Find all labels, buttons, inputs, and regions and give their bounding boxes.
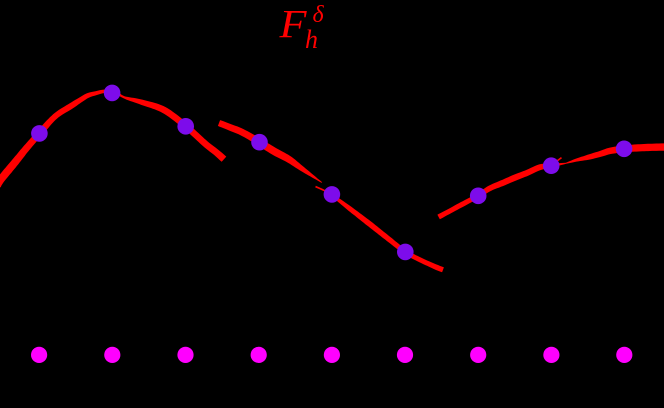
mesh point 6 (magenta) [397, 347, 413, 363]
curve piece 2a (red band, element 2: cap to wedge tip) [218, 120, 322, 183]
svg-text:δ: δ [313, 2, 325, 28]
node dot 4 (purple) [251, 134, 268, 151]
thin crossing stroke near node 8 [552, 157, 562, 165]
curve piece 3 (red band, element 3) [437, 143, 664, 219]
mesh point 9 (magenta) [616, 347, 632, 363]
curve piece 2c (red band, element 2: node 5 to end) [328, 191, 444, 272]
node dot 8 (purple) [543, 157, 560, 174]
mesh point 3 (magenta) [177, 347, 193, 363]
node dot 2 (purple) [104, 85, 121, 102]
node dot 1 (purple) [31, 125, 48, 142]
mesh point 1 (magenta) [31, 347, 47, 363]
node dot 6 (purple) [397, 244, 414, 261]
curve piece 2b (thin line into node 5) [315, 186, 328, 193]
node dot 7 (purple) [470, 188, 487, 205]
node dot 3 (purple) [177, 118, 194, 135]
svg-text:h: h [305, 25, 318, 54]
mesh point 8 (magenta) [543, 347, 559, 363]
node dot 9 (purple) [616, 141, 633, 158]
node dot 5 (purple) [324, 186, 341, 203]
curve piece 1 (red band, element 1) [0, 89, 226, 187]
mesh point 5 (magenta) [324, 347, 340, 363]
mesh point 4 (magenta) [251, 347, 267, 363]
mesh point 7 (magenta) [470, 347, 486, 363]
mesh point 2 (magenta) [104, 347, 120, 363]
svg-text:F: F [278, 2, 307, 47]
